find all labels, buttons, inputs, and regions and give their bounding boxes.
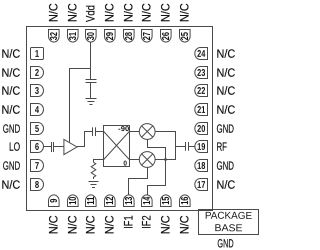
pin 9 box (49, 195, 60, 207)
svg-text:N/C: N/C (1, 47, 20, 61)
svg-text:N/C: N/C (66, 3, 80, 22)
pin 5 box (31, 123, 44, 135)
svg-text:GND: GND (3, 159, 21, 173)
pin 6 box (31, 141, 44, 153)
svg-text:21: 21 (197, 105, 206, 116)
svg-text:20: 20 (197, 124, 206, 135)
svg-text:19: 19 (197, 142, 206, 153)
pin 24 box (195, 48, 208, 60)
svg-text:0: 0 (123, 160, 127, 167)
svg-text:N/C: N/C (103, 215, 117, 234)
svg-text:16: 16 (180, 196, 191, 205)
package outline (27, 27, 213, 211)
wire (54, 146, 64, 148)
wire hybrid to mixer M2 (130, 159, 140, 161)
pin 8 box (31, 179, 44, 191)
svg-text:N/C: N/C (159, 3, 173, 22)
svg-text:15: 15 (161, 196, 172, 205)
pin 1 box (31, 48, 44, 60)
svg-text:N/C: N/C (84, 215, 98, 234)
svg-text:Vdd: Vdd (84, 5, 98, 22)
svg-text:7: 7 (35, 161, 40, 172)
pin 30 box (86, 30, 97, 43)
svg-text:IF1: IF1 (122, 215, 136, 228)
svg-text:11: 11 (86, 196, 97, 205)
resistor R1 hybrid termination (91, 162, 96, 179)
pin 17 box (195, 179, 208, 191)
svg-text:25: 25 (180, 32, 191, 41)
pin 15 box (161, 195, 172, 207)
pin 20 box (195, 123, 208, 135)
pin 14 box (142, 195, 153, 207)
svg-text:N/C: N/C (47, 3, 61, 22)
pin 18 box (195, 160, 208, 172)
wire amplifier output (77, 132, 92, 147)
svg-text:5: 5 (35, 124, 40, 135)
svg-text:22: 22 (197, 86, 206, 97)
wire Vdd branch to amplifier supply (70, 69, 91, 143)
pin 13 box (124, 195, 135, 207)
amplifier U1 LO buffer (64, 139, 77, 154)
svg-text:10: 10 (68, 196, 79, 205)
junction dot (164, 158, 167, 161)
90-degree hybrid U2 (104, 126, 130, 167)
svg-text:4: 4 (35, 105, 40, 116)
pin 11 box (86, 195, 97, 207)
svg-text:N/C: N/C (1, 66, 20, 80)
svg-text:6: 6 (35, 142, 40, 153)
svg-text:N/C: N/C (216, 103, 235, 117)
svg-text:N/C: N/C (216, 66, 235, 80)
pin 21 box (195, 104, 208, 116)
wire LO input from pin 6 (44, 146, 52, 148)
svg-text:GND: GND (217, 236, 233, 250)
svg-text:8: 8 (35, 180, 40, 191)
svg-text:N/C: N/C (159, 215, 173, 234)
svg-text:18: 18 (197, 161, 206, 172)
wire to pin 19 RF (189, 146, 196, 148)
wire IF1 mixer M2 to pin 13 (129, 167, 148, 195)
pin 7 box (31, 160, 44, 172)
pin 3 box (31, 85, 44, 97)
pin 31 box (68, 30, 79, 43)
svg-text:30: 30 (86, 32, 97, 41)
svg-text:N/C: N/C (216, 84, 235, 98)
svg-text:N/C: N/C (178, 3, 192, 22)
svg-text:N/C: N/C (47, 215, 61, 234)
svg-text:N/C: N/C (122, 3, 136, 22)
svg-text:N/C: N/C (103, 3, 117, 22)
svg-text:23: 23 (197, 68, 206, 79)
mixer M2 (139, 152, 155, 168)
mixer M1 (139, 124, 155, 140)
svg-text:N/C: N/C (140, 3, 154, 22)
svg-text:N/C: N/C (1, 103, 20, 117)
svg-text:-90: -90 (118, 126, 129, 133)
svg-text:9: 9 (49, 198, 60, 203)
pin 10 box (68, 195, 79, 207)
pin 4 box (31, 104, 44, 116)
svg-text:N/C: N/C (66, 215, 80, 234)
wire RF combiner (155, 132, 175, 160)
svg-text:BASE: BASE (214, 223, 242, 234)
wire RF output tap (176, 146, 186, 148)
pin 16 box (180, 195, 191, 207)
svg-text:GND: GND (3, 122, 21, 136)
svg-text:13: 13 (124, 196, 135, 205)
wire Vdd from pin 30 (90, 42, 92, 79)
svg-text:N/C: N/C (216, 178, 235, 192)
svg-text:28: 28 (124, 32, 135, 41)
svg-text:32: 32 (49, 32, 60, 41)
svg-text:GND: GND (216, 122, 234, 136)
svg-text:27: 27 (142, 32, 153, 41)
ground (Vdd decoupling) (86, 99, 97, 105)
svg-text:3: 3 (35, 86, 40, 97)
ground (hybrid termination) (89, 182, 99, 188)
svg-text:14: 14 (142, 196, 153, 205)
svg-text:PACKAGE: PACKAGE (205, 211, 253, 222)
svg-text:N/C: N/C (178, 215, 192, 234)
svg-text:RF: RF (216, 140, 227, 154)
pin 12 box (105, 195, 116, 207)
capacitor C1 Vdd decoupling (86, 80, 97, 99)
svg-text:26: 26 (161, 32, 172, 41)
pin 2 box (31, 67, 44, 79)
pin 23 box (195, 67, 208, 79)
wire hybrid to mixer M1 (130, 131, 140, 133)
svg-text:29: 29 (105, 32, 116, 41)
svg-text:2: 2 (35, 68, 40, 79)
svg-text:GND: GND (216, 159, 234, 173)
wire hybrid isolation port (94, 160, 104, 163)
capacitor C2 LO input coupling (52, 142, 54, 152)
pin 27 box (142, 30, 153, 43)
capacitor C4 RF output coupling (186, 142, 189, 151)
svg-text:12: 12 (105, 196, 116, 205)
svg-text:1: 1 (35, 49, 40, 60)
svg-text:N/C: N/C (1, 84, 20, 98)
svg-text:24: 24 (197, 49, 206, 60)
wire IF2 mixer M1 to pin 14 (148, 139, 166, 195)
svg-text:31: 31 (68, 32, 79, 41)
capacitor C3 amp to hybrid coupling (93, 127, 96, 136)
svg-text:17: 17 (197, 180, 206, 191)
pin 26 box (161, 30, 172, 43)
pin 25 box (180, 30, 191, 43)
svg-text:LO: LO (9, 140, 20, 154)
pin 22 box (195, 85, 208, 97)
pin 19 box (195, 141, 208, 153)
svg-text:N/C: N/C (216, 47, 235, 61)
svg-text:IF2: IF2 (140, 215, 154, 228)
pin 29 box (105, 30, 116, 43)
pin 28 box (124, 30, 135, 43)
package base box (199, 210, 259, 235)
wire (96, 131, 104, 133)
svg-text:N/C: N/C (1, 178, 20, 192)
pin 32 box (49, 30, 60, 43)
